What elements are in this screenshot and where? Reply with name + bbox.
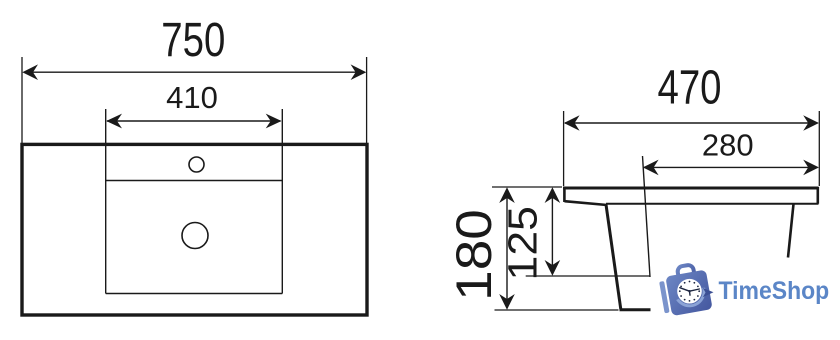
dimension 180: extension lines — [492, 187, 619, 310]
dimension 125: line and arrows — [545, 187, 561, 275]
basin slab outline — [563, 187, 819, 205]
svg-text:280: 280 — [702, 128, 754, 163]
front leg back edge / 280 extension line — [643, 156, 651, 277]
back leg — [788, 204, 794, 258]
svg-text:410: 410 — [166, 80, 218, 115]
svg-text:180: 180 — [446, 209, 502, 301]
svg-text:125: 125 — [500, 206, 546, 280]
svg-text:750: 750 — [161, 14, 225, 67]
faucet hole — [189, 157, 204, 172]
logo cursor arrow — [703, 288, 714, 297]
drain hole — [182, 223, 208, 249]
logo clock hands — [680, 288, 700, 296]
front leg — [606, 205, 651, 310]
logo clock ticks — [679, 281, 700, 302]
dimension 410: line and arrows — [106, 114, 281, 129]
svg-text:TimeShop: TimeShop — [718, 277, 829, 305]
dimension 180: line and arrows — [499, 187, 515, 309]
dimension 470: line and arrows — [564, 115, 819, 131]
logo bag handle — [677, 264, 695, 282]
logo clock face — [677, 279, 702, 304]
logo bag body — [665, 270, 712, 317]
dimension 125: bottom extension line — [526, 275, 650, 277]
logo swoosh — [676, 288, 705, 308]
dimension 470: extension lines — [564, 111, 820, 186]
dimension 280: line and arrows — [643, 160, 819, 176]
basin inner bowl outline — [106, 109, 283, 294]
dimension 750: line and arrows — [22, 64, 366, 80]
svg-text:470: 470 — [657, 61, 721, 114]
logo clock center dot — [688, 290, 690, 292]
basin outer rectangle — [22, 144, 367, 315]
logo stripe — [659, 281, 669, 313]
dimension 750: extension lines — [22, 57, 367, 144]
